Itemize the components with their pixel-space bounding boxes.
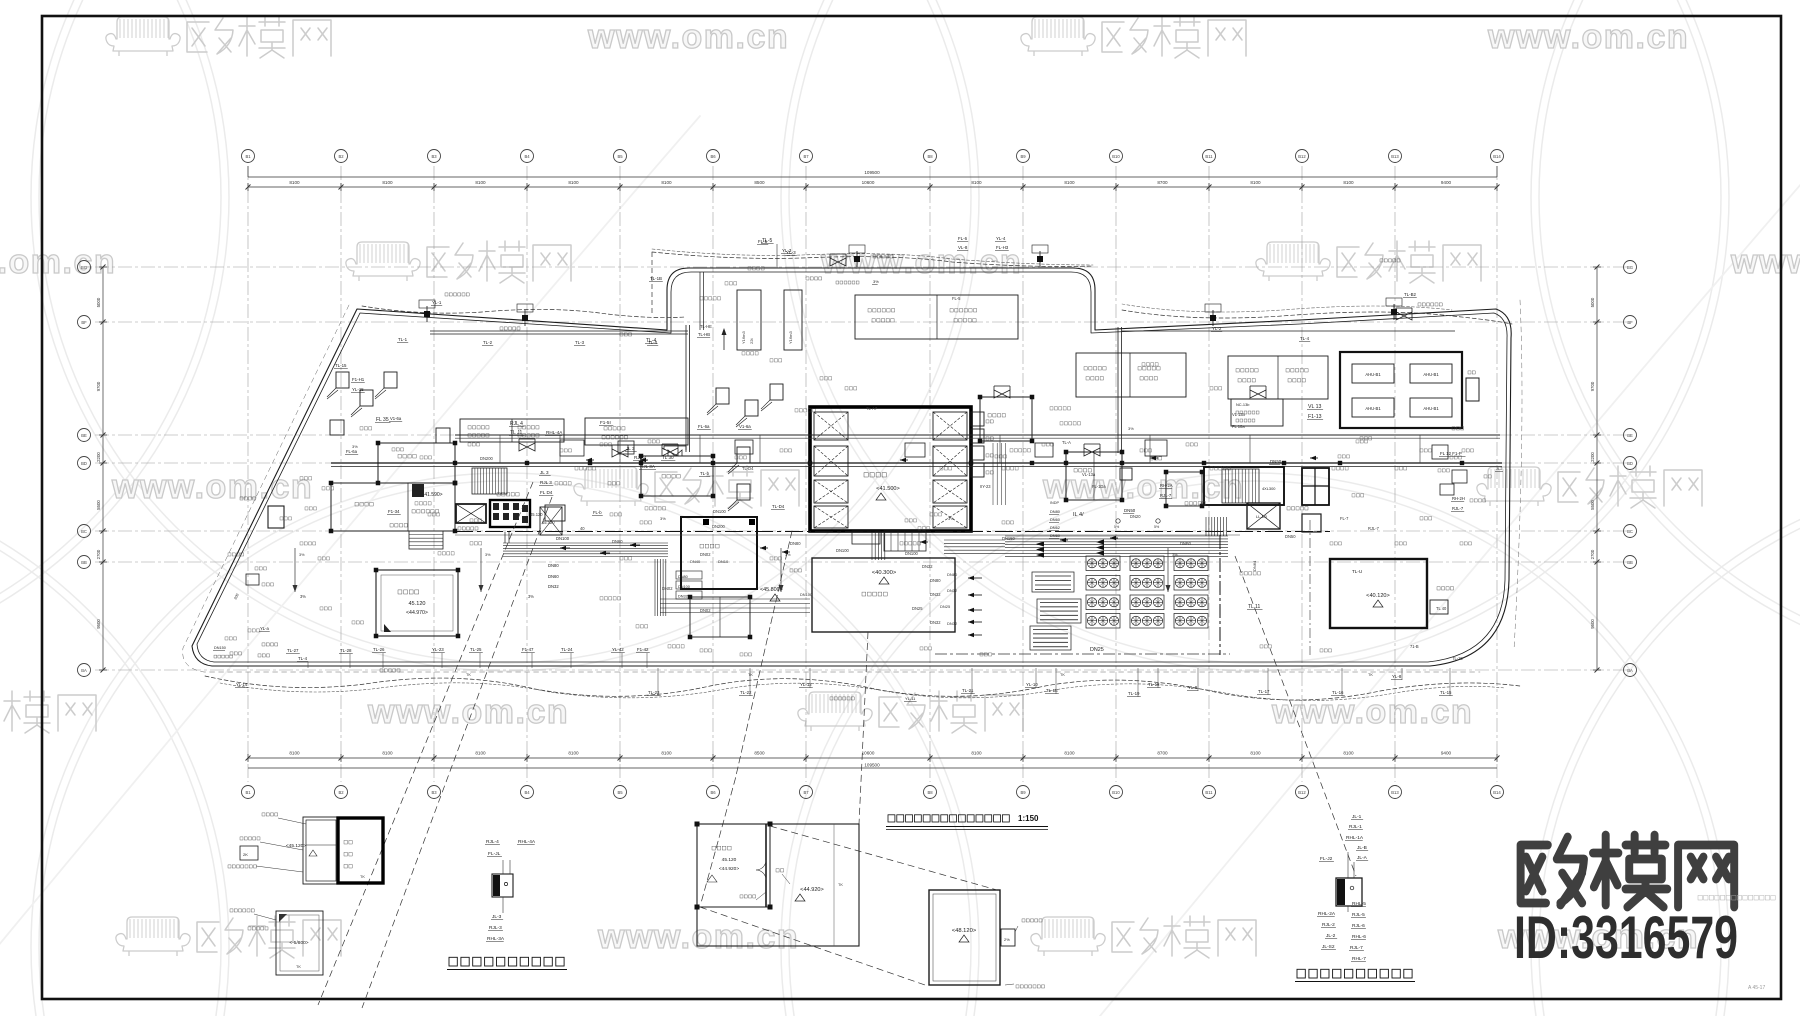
svg-text:B14: B14 xyxy=(1493,154,1501,159)
svg-text:1:150: 1:150 xyxy=(1018,814,1039,823)
svg-text:YL-23: YL-23 xyxy=(432,647,444,652)
svg-text:DN100: DN100 xyxy=(800,592,813,597)
svg-text:TL-b: TL-b xyxy=(700,471,710,476)
west shaft detail plan xyxy=(303,817,383,884)
svg-text:FL-5: FL-5 xyxy=(952,296,961,301)
svg-text:RJL-5: RJL-5 xyxy=(1352,912,1365,918)
svg-text:www.om.cn: www.om.cn xyxy=(367,693,569,731)
svg-text:AHU-B1: AHU-B1 xyxy=(1423,406,1439,411)
svg-text:40: 40 xyxy=(580,526,585,531)
svg-text:8100: 8100 xyxy=(568,180,579,185)
roof drain risers and valves xyxy=(662,448,678,456)
svg-text:3%: 3% xyxy=(528,594,534,599)
svg-text:TL-4: TL-4 xyxy=(1300,336,1310,341)
svg-text:TL-1: TL-1 xyxy=(398,337,408,342)
svg-text:Y16m3: Y16m3 xyxy=(741,331,746,344)
svg-text:DN80: DN80 xyxy=(790,541,801,546)
svg-text:9400: 9400 xyxy=(1441,180,1452,185)
elevator machine room core 41.500 xyxy=(810,407,971,531)
pipe manifold and cooling tower fans xyxy=(1005,535,1228,537)
svg-text:V1-6a: V1-6a xyxy=(739,424,751,429)
svg-text:F1-42: F1-42 xyxy=(637,647,649,652)
middle pressurization room detail xyxy=(697,824,859,946)
svg-text:TL-15: TL-15 xyxy=(335,363,347,368)
svg-text:YL-4: YL-4 xyxy=(996,236,1006,241)
svg-text:DN32: DN32 xyxy=(930,620,941,625)
svg-text:8100: 8100 xyxy=(971,751,982,756)
svg-text:RHL-4A: RHL-4A xyxy=(546,430,563,435)
svg-text:2200: 2200 xyxy=(1590,452,1595,462)
svg-text:TL-24: TL-24 xyxy=(561,647,573,652)
mid-left machine room xyxy=(641,456,713,496)
svg-text:22t: 22t xyxy=(749,338,754,344)
svg-text:8100: 8100 xyxy=(661,751,672,756)
svg-text:8100: 8100 xyxy=(1250,180,1261,185)
svg-text:YL-42: YL-42 xyxy=(612,647,624,652)
svg-text:JL-A: JL-A xyxy=(1357,855,1368,861)
svg-text:DN02: DN02 xyxy=(662,586,673,591)
svg-text:www.om.cn: www.om.cn xyxy=(820,243,1022,281)
water tank boxes 16m3 xyxy=(737,290,761,350)
svg-text:TL-HE: TL-HE xyxy=(700,324,712,329)
svg-text:DN32: DN32 xyxy=(930,592,941,597)
svg-text:109500: 109500 xyxy=(864,170,880,175)
svg-text:DN20: DN20 xyxy=(1130,514,1141,519)
svg-text:DN80: DN80 xyxy=(678,575,688,579)
svg-text:9700: 9700 xyxy=(96,381,101,391)
svg-text:RJL-6: RJL-6 xyxy=(1352,923,1365,929)
column axis grid with circled labels xyxy=(247,166,249,782)
svg-text:BE: BE xyxy=(81,433,87,438)
svg-text:RJL 3: RJL 3 xyxy=(540,480,552,485)
svg-text:TK: TK xyxy=(360,875,365,879)
svg-text:www.om.cn: www.om.cn xyxy=(0,243,116,281)
svg-text:Y16m3: Y16m3 xyxy=(788,331,793,344)
svg-text:IL 4/: IL 4/ xyxy=(1073,512,1084,518)
svg-text:DN60: DN60 xyxy=(1050,533,1061,538)
svg-text:RHL-2A: RHL-2A xyxy=(1318,911,1336,917)
svg-text:F1-47: F1-47 xyxy=(522,647,534,652)
svg-text:9400: 9400 xyxy=(1441,751,1452,756)
svg-text:F1-13: F1-13 xyxy=(1308,414,1322,420)
svg-text:BD: BD xyxy=(1627,461,1633,466)
bottom dimension chain 109500 xyxy=(248,757,1497,759)
svg-text:TK: TK xyxy=(1368,673,1373,677)
svg-text:8700: 8700 xyxy=(1157,751,1168,756)
svg-text:8100: 8100 xyxy=(1064,751,1075,756)
svg-text:<45.800>: <45.800> xyxy=(760,587,783,593)
svg-text:B12: B12 xyxy=(1298,790,1306,795)
svg-text:TL-3: TL-3 xyxy=(575,340,585,345)
svg-text:DN32: DN32 xyxy=(548,584,559,589)
drainage collection tank 40.300 xyxy=(812,558,955,632)
svg-text:BB: BB xyxy=(1627,560,1633,565)
svg-text:TL-D4: TL-D4 xyxy=(742,466,754,471)
svg-text:4XL300: 4XL300 xyxy=(1262,486,1276,491)
svg-text:YL-9: YL-9 xyxy=(1188,685,1198,690)
svg-text:5000: 5000 xyxy=(1590,297,1595,307)
svg-text:8100: 8100 xyxy=(289,180,300,185)
svg-text:5%: 5% xyxy=(1154,525,1160,529)
svg-text:F1-H1: F1-H1 xyxy=(352,377,365,382)
svg-text:BG: BG xyxy=(81,265,87,270)
svg-text:RJL-4: RJL-4 xyxy=(486,839,499,845)
svg-text:FL-H3: FL-H3 xyxy=(996,245,1009,250)
svg-text:FL-5: FL-5 xyxy=(758,239,768,244)
svg-text:B7: B7 xyxy=(803,790,809,795)
svg-text:9500: 9500 xyxy=(96,619,101,629)
svg-text:RJL-2: RJL-2 xyxy=(1322,922,1335,928)
svg-text:www.om.cn: www.om.cn xyxy=(1487,18,1689,56)
svg-text:AHU-B1: AHU-B1 xyxy=(1423,372,1439,377)
svg-text:<41.500>: <41.500> xyxy=(876,486,900,492)
watermark deco circles xyxy=(0,0,221,663)
svg-text:TL-4: TL-4 xyxy=(648,340,658,345)
svg-text:3%: 3% xyxy=(948,516,954,521)
svg-text:DN60: DN60 xyxy=(612,539,623,544)
svg-text:DN80: DN80 xyxy=(930,578,941,583)
svg-text:B5: B5 xyxy=(617,154,623,159)
svg-text:8100: 8100 xyxy=(1250,751,1261,756)
svg-text:8700: 8700 xyxy=(1157,180,1168,185)
svg-text:<-5/800>: <-5/800> xyxy=(289,940,308,946)
svg-text:DN25: DN25 xyxy=(912,606,923,611)
svg-text:FL-6a: FL-6a xyxy=(346,449,358,454)
svg-text:DN50: DN50 xyxy=(1285,534,1296,539)
svg-text:B6: B6 xyxy=(710,790,716,795)
svg-text:JL-S2: JL-S2 xyxy=(1322,944,1335,950)
svg-text:TL 11: TL 11 xyxy=(1248,604,1260,610)
svg-text:TK: TK xyxy=(748,673,753,677)
svg-text:B3: B3 xyxy=(431,790,437,795)
svg-text:B3: B3 xyxy=(431,154,437,159)
svg-text:9500: 9500 xyxy=(1590,619,1595,629)
svg-text:JL-1: JL-1 xyxy=(1352,814,1362,820)
svg-text:DN10: DN10 xyxy=(718,559,729,564)
svg-text:8100: 8100 xyxy=(289,751,300,756)
svg-text:B8: B8 xyxy=(927,790,933,795)
svg-text:RHL-5: RHL-5 xyxy=(1352,901,1366,907)
svg-text:B11: B11 xyxy=(1205,790,1213,795)
svg-text:DN60: DN60 xyxy=(1050,517,1061,522)
svg-text:VL-8: VL-8 xyxy=(958,245,968,250)
svg-text:TL-27: TL-27 xyxy=(287,648,299,653)
svg-text:TL-HB: TL-HB xyxy=(698,332,710,337)
svg-text:www.om.cn: www.om.cn xyxy=(587,18,789,56)
svg-text:DN32: DN32 xyxy=(678,595,688,599)
svg-text:BE: BE xyxy=(1627,433,1633,438)
svg-text:YL-12: YL-12 xyxy=(800,682,812,687)
west stair/machine room cluster xyxy=(378,443,455,483)
svg-text:FL D4: FL D4 xyxy=(540,490,553,495)
left dimension chain xyxy=(102,267,104,670)
svg-text:B4: B4 xyxy=(524,154,530,159)
right dimension chain xyxy=(1596,267,1598,670)
AHU plant room xyxy=(1340,352,1462,428)
svg-text:BC: BC xyxy=(81,529,87,534)
svg-text:TK: TK xyxy=(296,965,301,969)
svg-text:<44.920>: <44.920> xyxy=(800,887,824,893)
svg-text:BF: BF xyxy=(81,320,87,325)
svg-text:www.om.cn: www.om.cn xyxy=(1271,693,1473,731)
svg-text:TL-B2: TL-B2 xyxy=(1404,292,1417,297)
svg-text:BD: BD xyxy=(81,461,87,466)
svg-text:JL-B: JL-B xyxy=(1357,845,1367,851)
svg-text:B13: B13 xyxy=(1391,790,1399,795)
svg-text:45.120: 45.120 xyxy=(408,601,425,607)
svg-text:RHL-7: RHL-7 xyxy=(1352,956,1366,962)
svg-text:YL-14: YL-14 xyxy=(236,682,248,687)
svg-text:TL 40: TL 40 xyxy=(1436,606,1447,611)
svg-text:YL-a: YL-a xyxy=(260,626,270,631)
svg-text:5000: 5000 xyxy=(96,297,101,307)
svg-text:DN200: DN200 xyxy=(480,456,493,461)
svg-text:F1-34: F1-34 xyxy=(388,509,400,514)
svg-text:8100: 8100 xyxy=(475,751,486,756)
svg-text:YL-1: YL-1 xyxy=(432,300,442,305)
svg-text:NC-13b: NC-13b xyxy=(1236,402,1249,407)
svg-text:B1: B1 xyxy=(245,790,251,795)
svg-text:8100: 8100 xyxy=(661,180,672,185)
svg-text:B9: B9 xyxy=(1020,154,1026,159)
svg-text:B1: B1 xyxy=(245,154,251,159)
svg-text:LL-D3: LL-D3 xyxy=(1256,514,1268,519)
svg-text:A 45-17: A 45-17 xyxy=(1748,985,1765,991)
svg-text:DN32: DN32 xyxy=(947,588,958,593)
svg-text:DN60: DN60 xyxy=(548,574,559,579)
svg-text:DN100: DN100 xyxy=(678,585,690,589)
east stair and machine rooms xyxy=(1330,559,1427,628)
svg-text:INDP: INDP xyxy=(1050,501,1060,505)
svg-text:DN62: DN62 xyxy=(1050,525,1060,530)
svg-text:FL-J2: FL-J2 xyxy=(1320,856,1333,862)
svg-text:FL-1Da: FL-1Da xyxy=(1092,484,1106,489)
svg-text:DN50: DN50 xyxy=(1270,459,1282,464)
svg-text:DN80: DN80 xyxy=(548,563,559,568)
svg-text:B10: B10 xyxy=(1112,790,1120,795)
svg-text:3%: 3% xyxy=(873,279,879,284)
svg-text:FL-6: FL-6 xyxy=(958,236,968,241)
svg-text:VL 13a: VL 13a xyxy=(1232,412,1246,417)
svg-text:3%: 3% xyxy=(660,516,666,521)
main title and scale 1:150 xyxy=(888,815,895,822)
svg-text:2%: 2% xyxy=(1004,937,1010,942)
svg-text:8500: 8500 xyxy=(754,751,765,756)
svg-text:ID:3316579: ID:3316579 xyxy=(1514,904,1738,971)
svg-text:DN100: DN100 xyxy=(836,548,849,553)
svg-text:DN32: DN32 xyxy=(947,621,958,626)
svg-text:TL-A7: TL-A7 xyxy=(866,406,878,411)
svg-text:DN150: DN150 xyxy=(214,646,226,650)
svg-text:DN80: DN80 xyxy=(1050,509,1061,514)
svg-text:FL-JL: FL-JL xyxy=(488,851,501,857)
svg-text:5500: 5500 xyxy=(96,500,101,510)
svg-text:RJL-7: RJL-7 xyxy=(1452,506,1464,511)
svg-text:8100: 8100 xyxy=(1064,180,1075,185)
svg-text:BF: BF xyxy=(1627,320,1633,325)
site logo and ID:3316579 xyxy=(1521,835,1735,907)
svg-text:9700: 9700 xyxy=(1590,381,1595,391)
svg-text:8100: 8100 xyxy=(382,180,393,185)
svg-text:B4: B4 xyxy=(524,790,530,795)
svg-text:<48.120>: <48.120> xyxy=(952,928,977,934)
svg-text:<45.120>: <45.120> xyxy=(286,843,306,849)
svg-text:DN40: DN40 xyxy=(690,559,701,564)
svg-text:RH-2H: RH-2H xyxy=(1452,496,1465,501)
svg-text:DN200: DN200 xyxy=(712,524,725,529)
svg-text:<40.300>: <40.300> xyxy=(872,570,897,576)
svg-text:B8: B8 xyxy=(927,154,933,159)
svg-text:FL-b: FL-b xyxy=(593,510,602,515)
svg-text:TL-1B: TL-1B xyxy=(650,276,662,281)
svg-text:B6: B6 xyxy=(710,154,716,159)
svg-text:YL-2: YL-2 xyxy=(1212,326,1222,331)
svg-text:TL-28: TL-28 xyxy=(340,648,352,653)
svg-text:TL-25: TL-25 xyxy=(470,647,482,652)
svg-text:FL-6a: FL-6a xyxy=(698,424,710,429)
svg-text:FL 12 F1-P: FL 12 F1-P xyxy=(1440,451,1462,456)
svg-text:RHL-6: RHL-6 xyxy=(1352,934,1366,940)
svg-text:JL-3: JL-3 xyxy=(492,914,502,920)
svg-text:TL 30: TL 30 xyxy=(662,455,674,460)
svg-text:YL-3: YL-3 xyxy=(782,248,792,253)
svg-text:F1-5I: F1-5I xyxy=(600,420,611,425)
transformer room 45.120 xyxy=(376,570,458,636)
svg-text:BB: BB xyxy=(81,560,87,565)
svg-text:BC: BC xyxy=(1627,529,1633,534)
svg-text:45.120: 45.120 xyxy=(722,857,737,863)
svg-text:JL-2: JL-2 xyxy=(1326,933,1336,939)
svg-text:RHL-1A: RHL-1A xyxy=(1346,835,1364,841)
svg-text:RHL-3A: RHL-3A xyxy=(487,936,505,942)
svg-text:2700: 2700 xyxy=(96,549,101,559)
svg-text:8100: 8100 xyxy=(382,751,393,756)
svg-text:5%: 5% xyxy=(1114,525,1120,529)
svg-text:YL-10: YL-10 xyxy=(1026,682,1038,687)
svg-text:B9: B9 xyxy=(1020,790,1026,795)
dashed leaders to detail views xyxy=(318,482,533,1005)
svg-text:VL-13a: VL-13a xyxy=(1082,472,1096,477)
svg-text:8100: 8100 xyxy=(971,180,982,185)
svg-text:3%: 3% xyxy=(1128,426,1134,431)
svg-text:TL J1: TL J1 xyxy=(510,430,523,436)
svg-text:DN100: DN100 xyxy=(556,536,570,541)
svg-text:5500: 5500 xyxy=(1590,500,1595,510)
humidifier room xyxy=(681,517,757,589)
svg-text:DN80: DN80 xyxy=(947,572,958,577)
svg-text:DN50: DN50 xyxy=(1124,508,1136,513)
svg-text:B10: B10 xyxy=(1112,154,1120,159)
svg-text:2200: 2200 xyxy=(96,452,101,462)
svg-text:B7: B7 xyxy=(803,154,809,159)
svg-text:www.om.cn: www.om.cn xyxy=(597,918,799,956)
svg-text:45.120: 45.120 xyxy=(530,512,543,517)
svg-text:DN150: DN150 xyxy=(1002,536,1015,541)
svg-text:3%: 3% xyxy=(299,553,305,557)
svg-text:IIY-23: IIY-23 xyxy=(980,484,991,489)
svg-text:TL-U: TL-U xyxy=(1352,569,1362,574)
svg-text:JL2: JL2 xyxy=(1496,466,1503,471)
svg-text:RHL-4A: RHL-4A xyxy=(518,839,536,845)
svg-text:RJL-7: RJL-7 xyxy=(1160,493,1172,498)
svg-text:DN25: DN25 xyxy=(940,604,951,609)
svg-text:TL-26: TL-26 xyxy=(373,647,385,652)
svg-text:FL-7: FL-7 xyxy=(1340,516,1349,521)
svg-text:10600: 10600 xyxy=(862,751,875,756)
svg-text:3%: 3% xyxy=(300,594,306,599)
svg-text:3%: 3% xyxy=(485,553,491,557)
svg-text:3%: 3% xyxy=(1172,553,1178,557)
top dimension chain 109500 xyxy=(248,186,1497,188)
svg-text:RJL-7: RJL-7 xyxy=(1350,945,1363,951)
svg-text:DN100: DN100 xyxy=(905,551,918,556)
svg-text:TK: TK xyxy=(466,673,471,677)
svg-text:BA: BA xyxy=(81,668,87,673)
svg-text:10600: 10600 xyxy=(862,180,875,185)
roof parapet outline xyxy=(192,268,1511,666)
svg-text:TL-15: TL-15 xyxy=(1452,656,1463,661)
watermark rows: sofa logo + om.cn xyxy=(106,16,331,58)
svg-text:TK: TK xyxy=(838,883,843,887)
svg-text:B11: B11 xyxy=(1205,154,1213,159)
svg-text:8100: 8100 xyxy=(475,180,486,185)
svg-text:DN02: DN02 xyxy=(700,552,711,557)
svg-text:RJL 4: RJL 4 xyxy=(510,421,523,427)
svg-text:2K: 2K xyxy=(243,852,248,857)
svg-text:<44.970>: <44.970> xyxy=(406,610,428,616)
svg-text:DN100: DN100 xyxy=(713,509,726,514)
svg-text:TL-2: TL-2 xyxy=(483,340,493,345)
svg-text:<41.590>: <41.590> xyxy=(421,492,442,498)
svg-text:DN02: DN02 xyxy=(700,608,711,613)
svg-text:8500: 8500 xyxy=(754,180,765,185)
svg-text:BA: BA xyxy=(1627,668,1633,673)
svg-text:DN64: DN64 xyxy=(1252,560,1257,571)
svg-text:8100: 8100 xyxy=(568,751,579,756)
svg-text:71-B: 71-B xyxy=(1410,644,1419,649)
svg-text:V1-6a: V1-6a xyxy=(390,416,402,421)
svg-text:DNB0: DNB0 xyxy=(1180,541,1192,546)
svg-text:www.om.cn: www.om.cn xyxy=(111,468,313,506)
svg-text:www.om.cn: www.om.cn xyxy=(1730,243,1800,281)
svg-text:YL-11: YL-11 xyxy=(905,696,916,701)
svg-text:JL 3: JL 3 xyxy=(540,470,549,475)
svg-text:AHU-B1: AHU-B1 xyxy=(1365,372,1381,377)
svg-text:109500: 109500 xyxy=(864,763,880,768)
svg-text:RH-2A: RH-2A xyxy=(1160,483,1173,488)
svg-text:FL 35: FL 35 xyxy=(376,417,389,423)
svg-text:TK: TK xyxy=(1060,673,1065,677)
svg-text:FL 10a: FL 10a xyxy=(1232,424,1245,429)
svg-text:YL-8: YL-8 xyxy=(1392,674,1402,679)
svg-text:<40.120>: <40.120> xyxy=(1366,593,1390,599)
svg-text:RJL-7: RJL-7 xyxy=(1368,526,1380,531)
svg-text:TL-D4: TL-D4 xyxy=(772,504,785,509)
svg-text:BG: BG xyxy=(1627,265,1633,270)
svg-text:B12: B12 xyxy=(1298,154,1306,159)
cooling tower equipment boxes xyxy=(460,419,564,442)
svg-text:8100: 8100 xyxy=(1343,751,1354,756)
svg-text:TL-4: TL-4 xyxy=(298,656,308,661)
svg-text:2700: 2700 xyxy=(1590,549,1595,559)
svg-text:RJL-3: RJL-3 xyxy=(489,925,502,931)
svg-text:45.120: 45.120 xyxy=(542,520,555,525)
svg-text:VL 13: VL 13 xyxy=(1308,404,1321,410)
svg-text:RJL-1: RJL-1 xyxy=(1349,824,1362,830)
svg-text:<44.920>: <44.920> xyxy=(719,866,739,872)
svg-text:DN25: DN25 xyxy=(1090,647,1104,653)
svg-text:B13: B13 xyxy=(1391,154,1399,159)
